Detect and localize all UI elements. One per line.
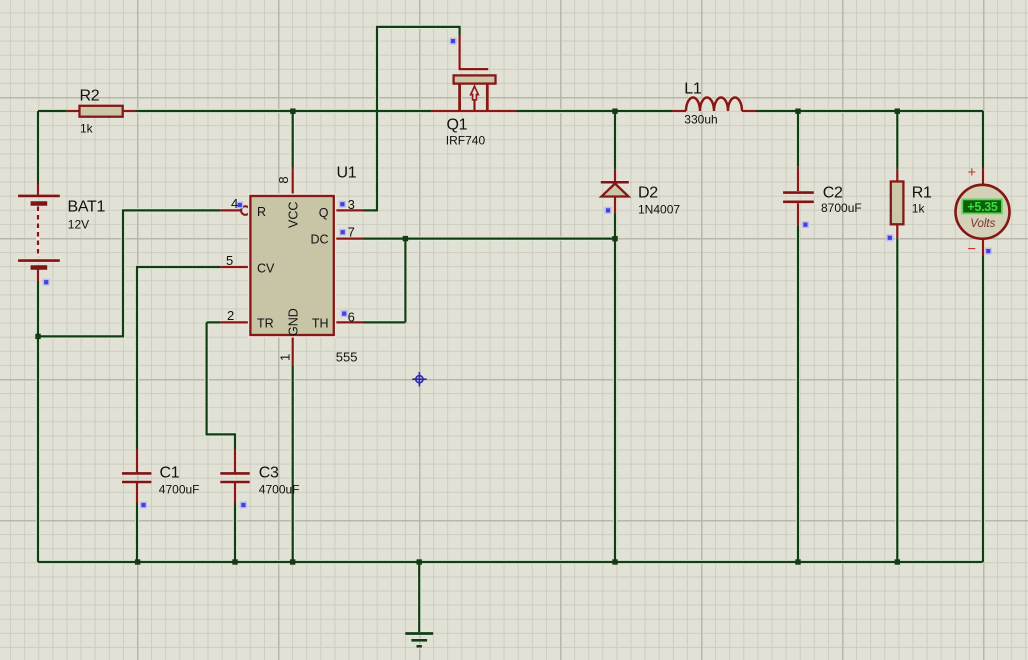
svg-text:4700uF: 4700uF	[259, 483, 300, 497]
svg-text:3: 3	[348, 197, 355, 212]
svg-text:+: +	[968, 165, 976, 181]
svg-text:7: 7	[348, 225, 355, 240]
svg-text:1k: 1k	[912, 202, 926, 216]
svg-text:DC: DC	[310, 233, 328, 247]
svg-text:BAT1: BAT1	[68, 199, 106, 216]
svg-text:U1: U1	[337, 165, 357, 182]
svg-text:VCC: VCC	[287, 202, 301, 228]
svg-text:5: 5	[226, 253, 233, 268]
svg-text:8700uF: 8700uF	[821, 201, 862, 215]
svg-text:1k: 1k	[80, 122, 94, 136]
svg-text:8: 8	[276, 176, 291, 183]
svg-text:4700uF: 4700uF	[159, 483, 200, 497]
svg-text:4: 4	[231, 196, 238, 211]
svg-text:Q1: Q1	[447, 117, 468, 134]
svg-text:2: 2	[227, 308, 234, 323]
svg-text:C2: C2	[823, 185, 843, 202]
svg-text:Volts: Volts	[970, 218, 995, 230]
svg-text:IRF740: IRF740	[446, 134, 486, 148]
svg-text:1N4007: 1N4007	[638, 203, 680, 217]
svg-text:R2: R2	[80, 88, 100, 105]
svg-text:555: 555	[336, 350, 358, 365]
svg-text:Q: Q	[319, 206, 329, 220]
svg-text:6: 6	[348, 309, 355, 324]
svg-text:CV: CV	[257, 262, 275, 276]
svg-text:R1: R1	[912, 185, 932, 202]
svg-text:TH: TH	[312, 317, 329, 331]
svg-text:R: R	[257, 205, 266, 219]
svg-text:330uh: 330uh	[684, 113, 717, 127]
svg-text:GND: GND	[287, 308, 301, 336]
svg-text:1: 1	[278, 354, 293, 361]
svg-text:C1: C1	[160, 465, 180, 482]
svg-text:C3: C3	[259, 465, 279, 482]
svg-text:L1: L1	[684, 81, 702, 98]
svg-text:12V: 12V	[68, 218, 89, 232]
svg-text:−: −	[968, 242, 976, 258]
svg-text:TR: TR	[257, 317, 274, 331]
svg-text:+5.35: +5.35	[967, 200, 997, 214]
svg-text:D2: D2	[638, 185, 658, 202]
